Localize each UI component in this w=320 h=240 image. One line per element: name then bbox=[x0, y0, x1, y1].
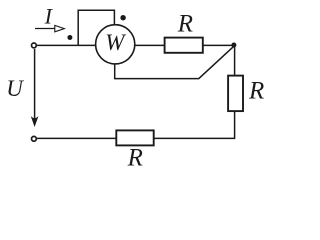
voltage arrow U bbox=[31, 49, 39, 127]
svg-text:R: R bbox=[127, 145, 143, 172]
wire: bottom terminal to resistor R3 bbox=[37, 137, 116, 139]
polarity dot (current coil) bbox=[67, 35, 72, 40]
svg-text:W: W bbox=[105, 30, 126, 55]
svg-text:I: I bbox=[44, 3, 54, 28]
resistor R1 (top) bbox=[165, 10, 203, 53]
current arrow bbox=[35, 25, 64, 31]
wire: resistor R2 down and corner to resistor R3 bbox=[154, 111, 235, 138]
node (junction) bbox=[231, 43, 236, 48]
wattmeter W bbox=[96, 25, 135, 64]
wire: voltage coil bottom lead bbox=[115, 46, 235, 79]
wire: node to resistor R2 bbox=[234, 46, 236, 76]
resistor R2 (right, vertical) bbox=[228, 76, 264, 112]
terminal (bottom left input) bbox=[32, 136, 37, 141]
wire: current coil loop over wattmeter bbox=[78, 10, 114, 45]
svg-text:U: U bbox=[6, 76, 24, 101]
svg-text:R: R bbox=[248, 77, 264, 104]
wire: resistor R1 to node bbox=[203, 44, 235, 46]
resistor R3 (bottom) bbox=[116, 130, 153, 171]
wire: wattmeter right to resistor R1 bbox=[135, 44, 165, 46]
terminal (top left input) bbox=[32, 43, 37, 48]
wire: top terminal to wattmeter left bbox=[37, 44, 96, 46]
svg-text:R: R bbox=[177, 10, 193, 37]
polarity dot (voltage coil) bbox=[120, 15, 125, 20]
